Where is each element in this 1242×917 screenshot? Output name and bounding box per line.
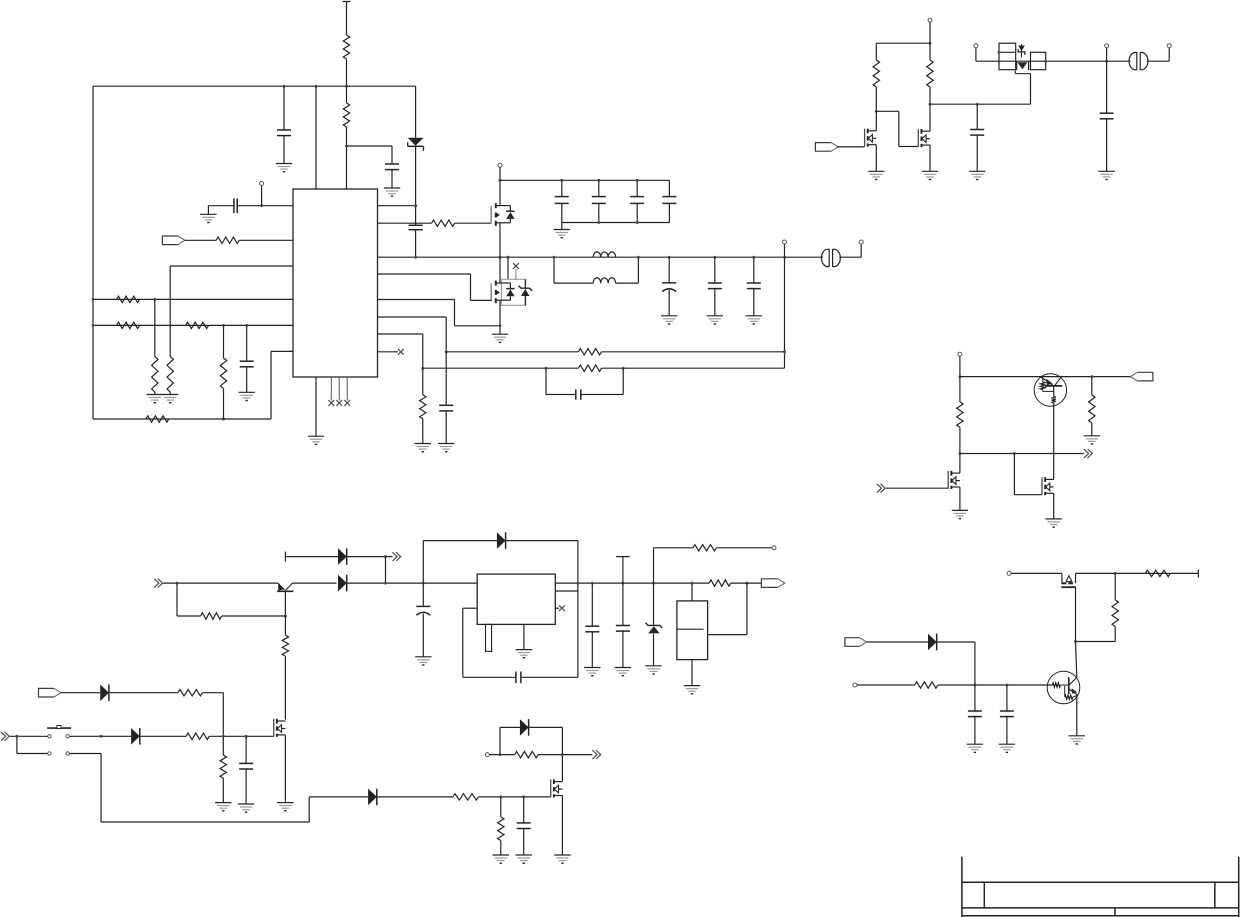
no-connect X (513, 263, 519, 279)
terminal (1167, 44, 1171, 48)
diode D1 bootstrap (408, 86, 424, 206)
wire VIN rail (93, 85, 416, 87)
capacitor C7 (662, 180, 676, 222)
resistor R2 (343, 103, 349, 127)
ground (969, 171, 985, 179)
ground (554, 855, 570, 863)
capacitor C4 (555, 180, 569, 222)
wire (959, 454, 961, 474)
terminal (1007, 571, 1011, 575)
wire tap (708, 583, 747, 635)
resistor R5 (578, 365, 601, 371)
diode D7 (131, 728, 140, 745)
net flag STAT (1130, 372, 1153, 381)
wire bottom loop (93, 418, 271, 420)
wire (346, 127, 348, 189)
node (499, 324, 502, 327)
node (929, 103, 932, 106)
wire (602, 367, 785, 369)
ground (1069, 736, 1085, 744)
node (576, 582, 579, 585)
ground (999, 744, 1015, 752)
ground (707, 316, 723, 324)
wire (499, 223, 501, 257)
net flag VREG (761, 579, 784, 588)
connector J2 (1129, 52, 1148, 69)
node (283, 85, 286, 88)
wire comp pin (271, 351, 293, 419)
resistor R17 (1089, 377, 1095, 436)
wire (654, 547, 693, 549)
net flag PWRON (845, 638, 867, 647)
transistor M1 (865, 129, 877, 147)
ground (384, 188, 400, 196)
wire (202, 693, 223, 737)
capacitor C3 bootstrap (409, 206, 423, 258)
wire (837, 146, 864, 148)
node (315, 85, 318, 88)
node (421, 367, 424, 370)
capacitor C16 (1100, 61, 1114, 171)
wire cap bank top (500, 179, 669, 181)
terminal (485, 753, 489, 757)
resistor R1 (343, 35, 349, 59)
transistor Q2 (491, 281, 514, 304)
diode D11 zener (646, 583, 663, 666)
net flag CTRL (815, 143, 838, 152)
node (384, 555, 387, 558)
ground (922, 171, 938, 179)
resistor network RN1 (677, 601, 708, 660)
capacitor C2 (347, 146, 400, 188)
no-connect pin (336, 377, 342, 406)
node (652, 582, 655, 585)
wire cap bank bottom (562, 222, 670, 224)
wire (929, 104, 931, 131)
wire (141, 735, 187, 737)
node (445, 350, 448, 353)
wire (1011, 572, 1062, 574)
resistor R31 (693, 545, 717, 551)
terminal (1105, 44, 1109, 62)
wire (1053, 493, 1055, 519)
wire M6 gate down (1076, 587, 1077, 677)
wire stub terminal (284, 552, 286, 562)
net chevron input (877, 484, 885, 493)
ground (200, 214, 216, 222)
wire left feedback loop (92, 86, 94, 419)
ground (277, 803, 293, 811)
switch SW1 (47, 726, 71, 756)
inductor L2 loop (554, 257, 638, 283)
node SW (637, 256, 640, 259)
node (636, 179, 639, 182)
capacitor C11 (439, 352, 453, 444)
node (560, 179, 563, 182)
ground (746, 316, 762, 324)
capacitor C24 (616, 583, 630, 667)
ground (967, 744, 983, 752)
resistor R4 (578, 349, 601, 355)
transistor M4 (948, 471, 960, 489)
resistor R3 (432, 220, 455, 226)
wire M5 gate (1014, 454, 1042, 495)
wire (561, 796, 563, 856)
node SW (553, 256, 556, 259)
capacitor C19 (239, 736, 253, 804)
ground (516, 650, 532, 658)
node (422, 582, 425, 585)
ground (1046, 519, 1062, 527)
wire (315, 86, 317, 189)
wire sense2 (93, 324, 293, 326)
wire (937, 642, 975, 685)
diode D6 (100, 684, 109, 701)
resistor R21 (915, 682, 938, 688)
capacitor C5 (592, 180, 606, 222)
wire (285, 556, 338, 558)
wire (716, 547, 772, 549)
node (958, 375, 961, 378)
node SW (499, 256, 502, 259)
wire gnd pin (523, 624, 525, 649)
wire (1107, 60, 1131, 62)
wire gnd pin (315, 377, 317, 436)
package outline Q2 (501, 279, 525, 305)
wire LG gate (378, 274, 492, 300)
transistor M2 (918, 129, 930, 147)
node (222, 324, 225, 327)
wire pin (555, 590, 578, 592)
diode D10 bypass (423, 532, 578, 583)
wire (561, 755, 563, 782)
transistor M8 (551, 779, 563, 797)
diode D8 (368, 789, 377, 806)
wire (1076, 572, 1199, 574)
terminal (260, 182, 264, 206)
ground (415, 444, 431, 452)
node (561, 753, 564, 756)
no-connect pin (344, 377, 350, 406)
wire (1076, 641, 1116, 643)
net chevron input (1, 732, 9, 741)
wire (731, 582, 762, 584)
ground (1084, 436, 1100, 444)
wire (561, 223, 563, 230)
diode D4 (338, 548, 347, 565)
transistor M7 (274, 719, 286, 737)
transistor M5 (1042, 477, 1054, 495)
ground (215, 803, 231, 811)
resistor R29 (515, 751, 539, 757)
node SW (414, 256, 417, 259)
wire base (284, 591, 286, 616)
node (636, 221, 639, 224)
ground (492, 334, 508, 342)
node (973, 684, 976, 687)
terminal (958, 352, 962, 376)
wire FB2 (378, 334, 423, 368)
capacitor C9 (708, 257, 722, 316)
wire (170, 266, 293, 325)
node (92, 298, 95, 301)
capacitor C8 polarized (662, 257, 676, 316)
inductor L1 (593, 252, 615, 257)
node (414, 204, 417, 207)
wire (378, 796, 453, 798)
resistor R30 (709, 580, 731, 586)
resistor R12 (167, 325, 173, 394)
terminal VBUS (928, 18, 932, 43)
resistor R25 (186, 733, 209, 739)
ground (162, 395, 178, 403)
wire collector (1053, 403, 1055, 480)
title block frame (962, 857, 1239, 917)
terminal (498, 163, 502, 167)
node (621, 582, 624, 585)
resistor R24 (178, 690, 203, 696)
resistor R13 (220, 325, 226, 419)
capacitor C14 (240, 325, 254, 392)
wire (538, 754, 592, 756)
op-amp U2 regulator (477, 574, 555, 624)
diode D2 zener in Q2 (518, 279, 532, 305)
wire (691, 583, 693, 601)
ground (239, 392, 255, 400)
node (958, 452, 961, 455)
net chevron input (154, 579, 162, 588)
node (1114, 572, 1117, 575)
op-amp U1 buck controller (293, 189, 378, 377)
wire output rail (592, 582, 709, 584)
node SW (783, 256, 786, 259)
wire HG gate (378, 222, 432, 224)
terminal VOUT (783, 240, 787, 257)
resistor R16 (927, 43, 933, 104)
resistor R7 (216, 237, 239, 243)
capacitor C18 (1000, 685, 1014, 744)
diode D9 bypass (500, 719, 562, 755)
transistor Q1 (491, 203, 514, 226)
wire (653, 548, 655, 583)
wire (284, 735, 286, 803)
wire (959, 487, 961, 510)
wire (960, 453, 1084, 455)
resistor R26 (220, 736, 226, 802)
node (1074, 640, 1077, 643)
resistor R23 (282, 616, 288, 720)
resistor R19 (1145, 570, 1170, 576)
net flag VCC (39, 688, 62, 697)
resistor R8 (117, 296, 140, 302)
node (976, 103, 979, 106)
capacitor C12 (546, 368, 623, 400)
node (522, 795, 525, 798)
node (1005, 684, 1008, 687)
wire lower pole (69, 754, 368, 823)
wire (222, 615, 286, 617)
node (245, 324, 248, 327)
node (92, 324, 95, 327)
wire emitter (1076, 694, 1078, 735)
ground (615, 668, 631, 676)
capacitor C13 (208, 198, 293, 214)
wire (69, 735, 101, 737)
transistor M6 P-FET (1061, 573, 1076, 587)
node (1013, 452, 1016, 455)
wire (499, 300, 501, 334)
resistor R18 (957, 377, 963, 454)
no-connect pin (378, 349, 404, 355)
wire (785, 256, 823, 258)
wire (423, 367, 579, 369)
node (622, 367, 625, 370)
ground (308, 436, 324, 444)
ground (645, 666, 661, 674)
node (153, 298, 156, 301)
node (245, 735, 248, 738)
resistor R28 (498, 797, 504, 855)
resistor R9 (152, 299, 158, 394)
node (929, 42, 932, 45)
wire end stub (1197, 569, 1199, 577)
capacitor C21 polarized (416, 583, 430, 657)
terminal (853, 683, 857, 687)
net flag EN (162, 236, 185, 245)
wire (867, 641, 928, 643)
node (260, 204, 263, 207)
terminal (859, 240, 863, 244)
ground (438, 444, 454, 452)
wire M2 gate (876, 111, 918, 146)
ground (661, 316, 677, 324)
ground (415, 657, 431, 665)
node (176, 582, 179, 585)
wire (292, 582, 336, 584)
wire (101, 735, 131, 737)
wire (499, 167, 501, 205)
wire SW rail (378, 256, 785, 258)
ground (147, 395, 163, 403)
node (591, 582, 594, 585)
ground (684, 686, 700, 694)
wire (61, 692, 100, 694)
transistor Q3 dual P-FET pack (998, 43, 1107, 73)
wire (346, 59, 348, 103)
ground (868, 171, 884, 179)
ground (584, 668, 600, 676)
node SW (668, 256, 671, 259)
wire kelvin source (378, 300, 501, 326)
node SW (752, 256, 755, 259)
node (499, 795, 502, 798)
wire (691, 660, 693, 686)
wire (386, 556, 393, 558)
connector J1 (821, 249, 840, 266)
terminal (772, 546, 776, 550)
node (691, 582, 694, 585)
wire (455, 222, 492, 224)
wire (489, 754, 514, 756)
transistor Q5 digital NPN (1047, 671, 1080, 704)
terminal (974, 44, 978, 62)
wire (385, 557, 387, 584)
node (545, 367, 548, 370)
wire (185, 239, 216, 241)
testpoint T bar (616, 557, 630, 584)
resistor R14 (146, 416, 169, 422)
capacitor C23 (585, 583, 599, 667)
wire (507, 257, 509, 279)
resistor R22 (201, 613, 222, 619)
capacitor C22 (516, 672, 578, 684)
wire output (555, 582, 592, 584)
ground (516, 855, 532, 863)
wire (478, 796, 550, 798)
wire (577, 583, 579, 677)
node (284, 615, 287, 618)
wire (839, 244, 861, 257)
net chevron (1084, 449, 1092, 458)
wire (10, 735, 48, 737)
wire (960, 376, 1131, 378)
ground (952, 510, 968, 518)
wire (976, 60, 999, 62)
wire gate up (1030, 74, 1032, 105)
node (1105, 60, 1108, 63)
resistor R11 (186, 322, 209, 328)
node (597, 221, 600, 224)
node (745, 582, 748, 585)
wire (875, 145, 877, 172)
capacitor C15 (970, 104, 984, 171)
wire (239, 239, 293, 241)
capacitor C10 (747, 257, 761, 316)
capacitor C6 (630, 180, 644, 222)
ground (238, 804, 254, 812)
wire (110, 692, 178, 694)
node (875, 110, 878, 113)
capacitor C20 (517, 797, 531, 855)
node (100, 735, 103, 738)
wire bypass loop (463, 608, 516, 677)
capacitor C1 (277, 86, 291, 163)
net chevron (592, 750, 600, 759)
transistor Q4 digital PNP (1034, 374, 1066, 406)
wire (602, 351, 785, 353)
wire BOOT pin (378, 205, 416, 207)
wire (446, 351, 578, 353)
wire (929, 145, 931, 171)
capacitor C17 (968, 685, 982, 744)
wire base (857, 684, 1053, 686)
no-connect pin (555, 605, 565, 611)
resistor R27 (453, 794, 479, 800)
wire (886, 487, 948, 489)
node (169, 324, 172, 327)
node (15, 735, 18, 738)
resistor R20 (1112, 573, 1118, 641)
ground (554, 230, 570, 238)
node (783, 350, 786, 353)
wire FB vertical (784, 257, 786, 368)
wire (209, 735, 274, 737)
node SW (713, 256, 716, 259)
resistor R6 (420, 368, 426, 443)
node (222, 735, 225, 738)
wire sense1 (93, 298, 293, 300)
node SW (507, 256, 510, 259)
